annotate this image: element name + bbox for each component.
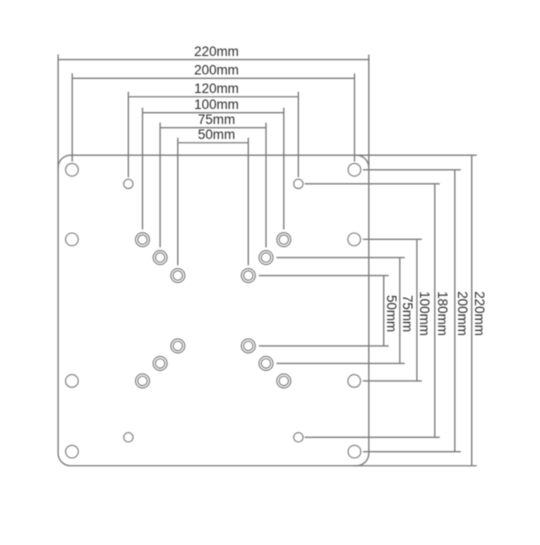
svg-text:220mm: 220mm [472,291,487,336]
svg-text:75mm: 75mm [198,112,235,127]
svg-text:50mm: 50mm [198,127,235,142]
svg-text:200mm: 200mm [455,291,470,336]
svg-text:220mm: 220mm [194,44,239,59]
svg-text:75mm: 75mm [400,295,415,332]
svg-text:50mm: 50mm [384,295,399,332]
svg-text:120mm: 120mm [194,81,239,96]
svg-text:100mm: 100mm [417,291,432,336]
svg-text:200mm: 200mm [194,63,239,78]
svg-text:100mm: 100mm [194,97,239,112]
svg-text:180mm: 180mm [435,291,450,336]
